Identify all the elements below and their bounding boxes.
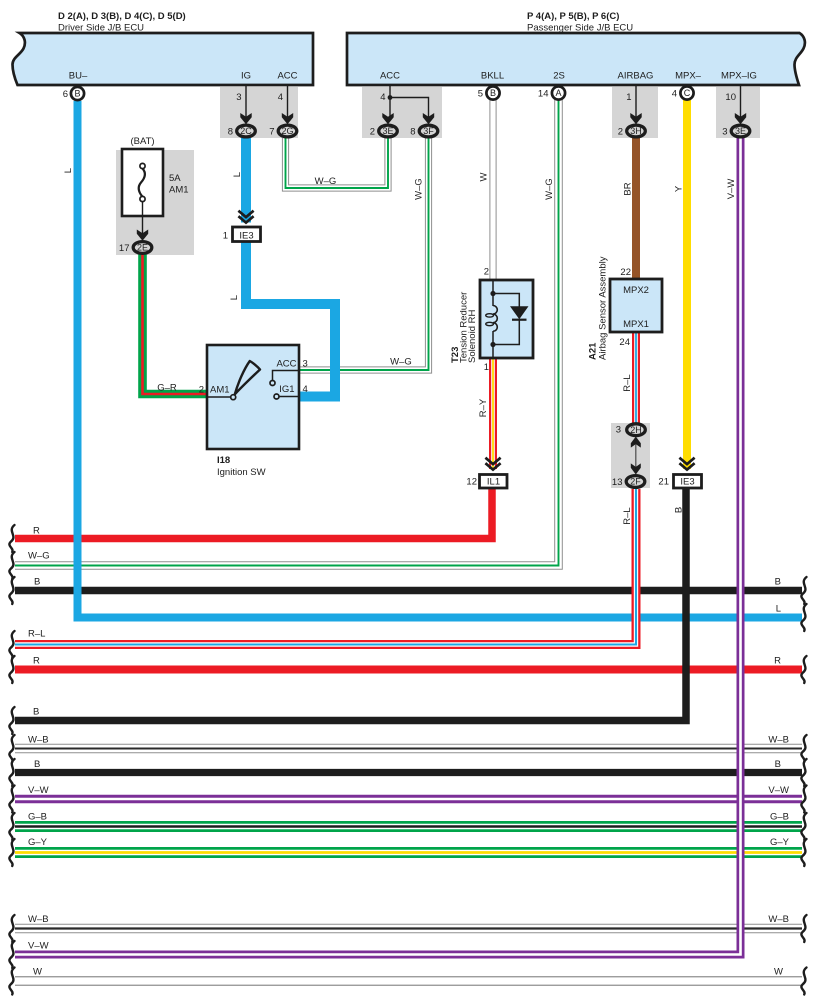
connector box IE3 left [233,227,261,242]
svg-text:ACC: ACC [277,71,297,82]
svg-text:4: 4 [380,92,385,103]
svg-text:W–G: W–G [28,551,50,562]
svg-text:AM1: AM1 [210,385,230,396]
connector shade 3E/3F [362,87,442,138]
wire B bus lower [15,769,802,776]
svg-text:2G: 2G [281,126,293,136]
break W-B right 1 [801,735,806,762]
svg-text:IG: IG [241,71,251,82]
oval 2G [278,125,297,137]
svg-text:8: 8 [228,127,233,138]
svg-text:W: W [479,172,490,181]
svg-text:W–G: W–G [315,176,337,187]
fuse lead to 2E [142,202,144,234]
arrow into 3E [382,113,393,124]
wire R-L bus to 2F [15,489,636,645]
wire R-Y from T23 to IL1 [489,357,497,469]
svg-text:W: W [33,967,42,978]
pin stub ACC right 4 with branch [390,86,429,117]
chevron into IE3 right [679,458,694,470]
svg-text:R–L: R–L [622,507,633,524]
T23 diode [510,306,529,319]
wire B bus upper [15,587,802,595]
wire W from BKLL to T23 [489,99,496,281]
svg-text:7: 7 [269,127,274,138]
svg-text:2E: 2E [137,243,148,253]
break W-B left 2 [9,915,14,942]
break B right 3 [801,759,806,786]
fuse element [140,163,145,168]
svg-text:L: L [229,295,240,300]
svg-text:2: 2 [618,127,623,138]
chevron into IE3 left [238,211,253,223]
ignition IG1 contact and lead [274,394,279,399]
svg-text:2C: 2C [240,126,252,136]
svg-text:3: 3 [616,425,621,436]
connector shade 3H [612,87,658,138]
svg-text:L: L [232,172,243,177]
svg-text:BR: BR [623,182,634,195]
break G-B right [801,813,806,840]
svg-text:13: 13 [612,477,623,488]
svg-text:G–Y: G–Y [28,837,48,848]
circle C MPX- [680,86,693,99]
svg-text:W–B: W–B [768,914,789,925]
svg-text:22: 22 [620,267,631,278]
svg-text:IL1: IL1 [487,477,500,488]
svg-text:B: B [34,759,40,770]
wire L from IE3 to ignition IG1 [246,242,335,397]
svg-text:V–W: V–W [726,179,737,200]
svg-text:C: C [684,88,691,98]
Driver Side J/B ECU box [13,33,314,85]
ignition switch I18 box [207,345,299,449]
wire B from IE3 to left edge [15,488,686,721]
svg-text:2: 2 [199,385,204,396]
ignition AM1 lead [208,396,230,398]
connector box IL1 [480,475,508,489]
svg-text:Ignition SW: Ignition SW [217,467,266,478]
arrow into 3F [423,113,434,124]
svg-text:G–B: G–B [770,812,789,823]
break B left 3 [9,759,14,786]
circle B BKLL [486,86,499,99]
wire W-G from 3F to ignition ACC [300,138,429,370]
double arrow between 2H and 2F [635,441,637,470]
T23 diode branch [493,294,519,345]
wire W bus bottom [15,976,802,986]
wire L from BU- to right edge [78,101,803,618]
fuse shade AM1 [116,150,194,255]
T23 solenoid box [480,280,533,358]
svg-text:3E: 3E [735,126,746,136]
break R left 1 [9,525,14,552]
break V-W right 1 [801,786,806,813]
svg-text:W–G: W–G [414,178,425,200]
wire G-Y bus [15,847,802,858]
svg-text:R: R [774,656,781,667]
connector shade 2H/2F [611,423,650,488]
oval 3E [379,125,398,137]
arrow into 2C [240,113,251,124]
pin stub MPX-IG 10 [740,86,742,117]
oval 2F [626,476,645,488]
break W-B right 2 [801,915,806,942]
svg-text:IE3: IE3 [239,231,253,242]
A21 airbag sensor box [610,279,662,332]
svg-text:17: 17 [119,243,130,254]
circle A 2S [552,86,565,99]
svg-text:I18: I18 [217,455,230,466]
svg-text:W–B: W–B [28,735,49,746]
svg-text:8: 8 [410,127,415,138]
ignition switch lever [235,361,260,394]
svg-text:L: L [776,604,781,615]
svg-text:V–W: V–W [28,941,49,952]
svg-text:3: 3 [236,92,241,103]
break B left 2 [9,707,14,734]
svg-text:ACC: ACC [380,71,400,82]
connector shade 3E right [716,87,760,138]
svg-text:B: B [490,88,496,98]
svg-text:Driver Side J/B ECU: Driver Side J/B ECU [58,23,144,34]
break W-G left [9,552,14,579]
break G-Y right [801,839,806,866]
arrow into 2G [282,113,293,124]
svg-text:IG1: IG1 [279,384,294,395]
break V-W left 2 [9,941,14,968]
svg-text:G–B: G–B [28,812,47,823]
wire W-G bus to 2S [15,99,559,566]
wire R bus to IL1 [15,485,492,539]
oval 3H [627,125,646,137]
svg-text:IE3: IE3 [680,477,694,488]
junction dot ACC branch [388,95,393,100]
arrow into 3E right [735,113,746,124]
wire R-L from MPX1 to 2H [632,331,640,424]
svg-text:10: 10 [725,92,736,103]
ignition ACC contact and lead [270,381,275,386]
svg-text:MPX2: MPX2 [623,285,649,296]
break G-Y left [9,839,14,866]
pin stub ACC left 4 [287,86,289,117]
svg-text:6: 6 [63,89,68,100]
svg-text:W–B: W–B [768,735,789,746]
wire L from 2C to IE3 [241,138,251,223]
svg-text:B: B [34,577,40,588]
svg-text:MPX–IG: MPX–IG [721,71,757,82]
Passenger Side J/B ECU box [347,33,805,85]
svg-text:R: R [33,526,40,537]
svg-text:AIRBAG: AIRBAG [618,71,654,82]
svg-text:R–L: R–L [622,374,633,391]
svg-text:3E: 3E [382,126,393,136]
svg-text:1: 1 [484,362,489,373]
svg-text:3H: 3H [630,126,642,136]
svg-text:2: 2 [484,267,489,278]
svg-text:12: 12 [466,477,477,488]
wire W-B bus lower [15,924,802,934]
svg-text:4: 4 [278,92,283,103]
wire V-W bus middle [15,795,802,803]
break V-W left 1 [9,786,14,813]
svg-text:4: 4 [303,384,308,395]
oval 3F [419,125,438,137]
svg-text:Passenger Side J/B ECU: Passenger Side J/B ECU [527,23,633,34]
svg-text:W–B: W–B [28,914,49,925]
break W-B left 1 [9,735,14,762]
svg-text:3: 3 [722,127,727,138]
arrow into 3H [630,113,641,124]
svg-text:A: A [555,88,561,98]
svg-text:(BAT): (BAT) [130,136,154,147]
wire Y from MPX- to IE3 [683,100,691,469]
wire V-W from MPX-IG to left edge [15,138,741,955]
break R left 2 [9,656,14,683]
svg-text:V–W: V–W [28,785,49,796]
svg-text:1: 1 [626,92,631,103]
oval 3E right [731,125,750,137]
svg-text:MPX–: MPX– [675,71,702,82]
wire G-B bus [15,821,802,832]
svg-text:BU–: BU– [69,71,88,82]
svg-text:Y: Y [674,185,685,192]
wire BR from 3H to MPX2 [632,138,640,281]
svg-text:4: 4 [672,89,677,100]
chevron into IL1 [485,458,500,470]
svg-text:W–G: W–G [544,178,555,200]
ignition AM1 contact [231,395,236,400]
svg-text:5A: 5A [169,173,181,184]
svg-text:2F: 2F [630,477,641,487]
connector shade 2C/2G [220,87,298,138]
svg-text:R–Y: R–Y [478,398,489,417]
T23 inner wire and junctions [492,281,494,357]
svg-text:Solenoid RH: Solenoid RH [467,310,478,363]
break W left [9,968,14,995]
svg-text:B: B [775,577,781,588]
wire W-B bus upper [15,744,802,754]
svg-text:B: B [33,707,39,718]
break B right 1 [801,577,806,604]
arrow into 2E [137,230,148,241]
svg-text:P 4(A), P 5(B), P 6(C): P 4(A), P 5(B), P 6(C) [527,11,619,22]
svg-text:L: L [63,168,74,173]
svg-text:1: 1 [223,231,228,242]
wire G-R from 2E to ignition AM1 [143,254,209,394]
break W right [801,968,806,995]
svg-text:2H: 2H [630,425,642,435]
svg-text:W–G: W–G [390,357,412,368]
svg-text:2S: 2S [553,71,565,82]
oval 2E [133,242,152,254]
pin stub IG 3 [245,86,247,117]
fuse AM1 body [122,149,163,216]
svg-text:B: B [74,89,80,99]
svg-text:B: B [775,759,781,770]
T23 coil [493,306,497,332]
svg-text:W: W [774,967,783,978]
svg-text:G–Y: G–Y [770,837,790,848]
break G-B left [9,813,14,840]
break R-L left [9,631,14,658]
svg-text:R–L: R–L [28,629,45,640]
svg-text:V–W: V–W [768,785,789,796]
wire W-G from 2G to 3E [286,138,389,188]
svg-text:2: 2 [370,127,375,138]
svg-text:G–R: G–R [157,383,177,394]
wire R bus lower [15,666,802,674]
svg-text:Airbag Sensor Assembly: Airbag Sensor Assembly [598,256,609,360]
break B left 1 [9,577,14,604]
svg-text:D 2(A), D 3(B), D 4(C), D 5(D): D 2(A), D 3(B), D 4(C), D 5(D) [58,11,186,22]
circle B BU- [71,87,84,100]
svg-text:3F: 3F [423,126,434,136]
svg-text:ACC: ACC [276,359,296,370]
svg-text:24: 24 [619,337,630,348]
svg-text:21: 21 [658,477,669,488]
svg-text:14: 14 [538,89,549,100]
svg-text:3: 3 [303,359,308,370]
svg-text:MPX1: MPX1 [623,319,649,330]
break L right [801,604,806,631]
svg-text:5: 5 [478,89,483,100]
pin stub AIRBAG 1 [635,86,637,117]
svg-text:BKLL: BKLL [481,71,504,82]
svg-text:B: B [674,507,685,513]
oval 2C [237,125,256,137]
svg-text:AM1: AM1 [169,185,189,196]
connector box IE3 right [674,475,702,489]
oval 2H [627,424,646,436]
break R right 2 [801,656,806,683]
svg-text:R: R [33,656,40,667]
